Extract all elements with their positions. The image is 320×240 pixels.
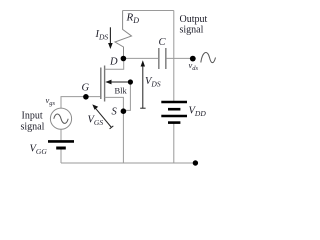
transistor M1 channel bar	[104, 66, 106, 102]
svg-text:VDS: VDS	[145, 76, 161, 89]
node S junction dot	[121, 108, 127, 114]
svg-text:S: S	[112, 107, 118, 118]
svg-text:IDS: IDS	[95, 29, 109, 42]
transistor M1 bulk arrow	[111, 81, 131, 83]
voltage arrow VDS	[142, 65, 144, 109]
wire: VGG battery bottom to bottom rail	[60, 150, 62, 164]
capacitor C plates	[159, 48, 166, 69]
svg-text:VGS: VGS	[88, 115, 104, 128]
node D junction dot	[121, 56, 127, 62]
svg-text:Input: Input	[22, 111, 43, 122]
transistor M1 gate bar	[100, 68, 102, 100]
svg-text:signal: signal	[21, 122, 45, 133]
wire: vgs source bottom to VGG battery	[60, 129, 62, 140]
svg-text:signal: signal	[180, 25, 204, 36]
wire: source of M1 down to bottom rail	[122, 113, 124, 163]
current arrow IDS	[109, 27, 111, 44]
transistor M1 drain lead	[105, 59, 124, 70]
output terminal dot	[190, 56, 196, 62]
svg-text:vds: vds	[189, 60, 199, 72]
svg-text:VGG: VGG	[30, 144, 48, 157]
svg-text:RD: RD	[126, 12, 140, 26]
wire: top rail from resistor top to right rail	[123, 10, 174, 12]
node G junction dot	[83, 94, 89, 100]
wire: capacitor right plate to output terminal	[166, 57, 193, 59]
voltage arrow VGS	[95, 108, 112, 128]
wire: node D to capacitor left plate	[123, 57, 158, 59]
wire: bulk down to source node	[125, 82, 131, 110]
svg-text:vgs: vgs	[46, 95, 56, 107]
svg-text:C: C	[159, 37, 167, 48]
wire: bottom rail	[61, 162, 195, 164]
output waveform squiggle	[201, 52, 216, 62]
bottom rail terminal dot	[193, 160, 198, 165]
svg-text:VDD: VDD	[189, 106, 207, 119]
source vgs (sine source circle)	[50, 108, 71, 129]
battery VGG	[48, 141, 74, 148]
node Blk junction dot	[128, 79, 133, 84]
wire: VDD battery bottom to bottom rail	[173, 124, 175, 164]
transistor M1 source lead	[105, 97, 124, 111]
svg-text:D: D	[109, 57, 118, 68]
battery VDD	[161, 102, 187, 123]
svg-text:Output: Output	[180, 14, 208, 25]
wire: vgs source top to gate wire	[61, 97, 100, 109]
resistor RD (zigzag)	[115, 11, 132, 57]
wire: right rail down to VDD battery top	[173, 11, 175, 102]
svg-text:G: G	[82, 83, 90, 94]
svg-text:Blk: Blk	[115, 86, 128, 96]
